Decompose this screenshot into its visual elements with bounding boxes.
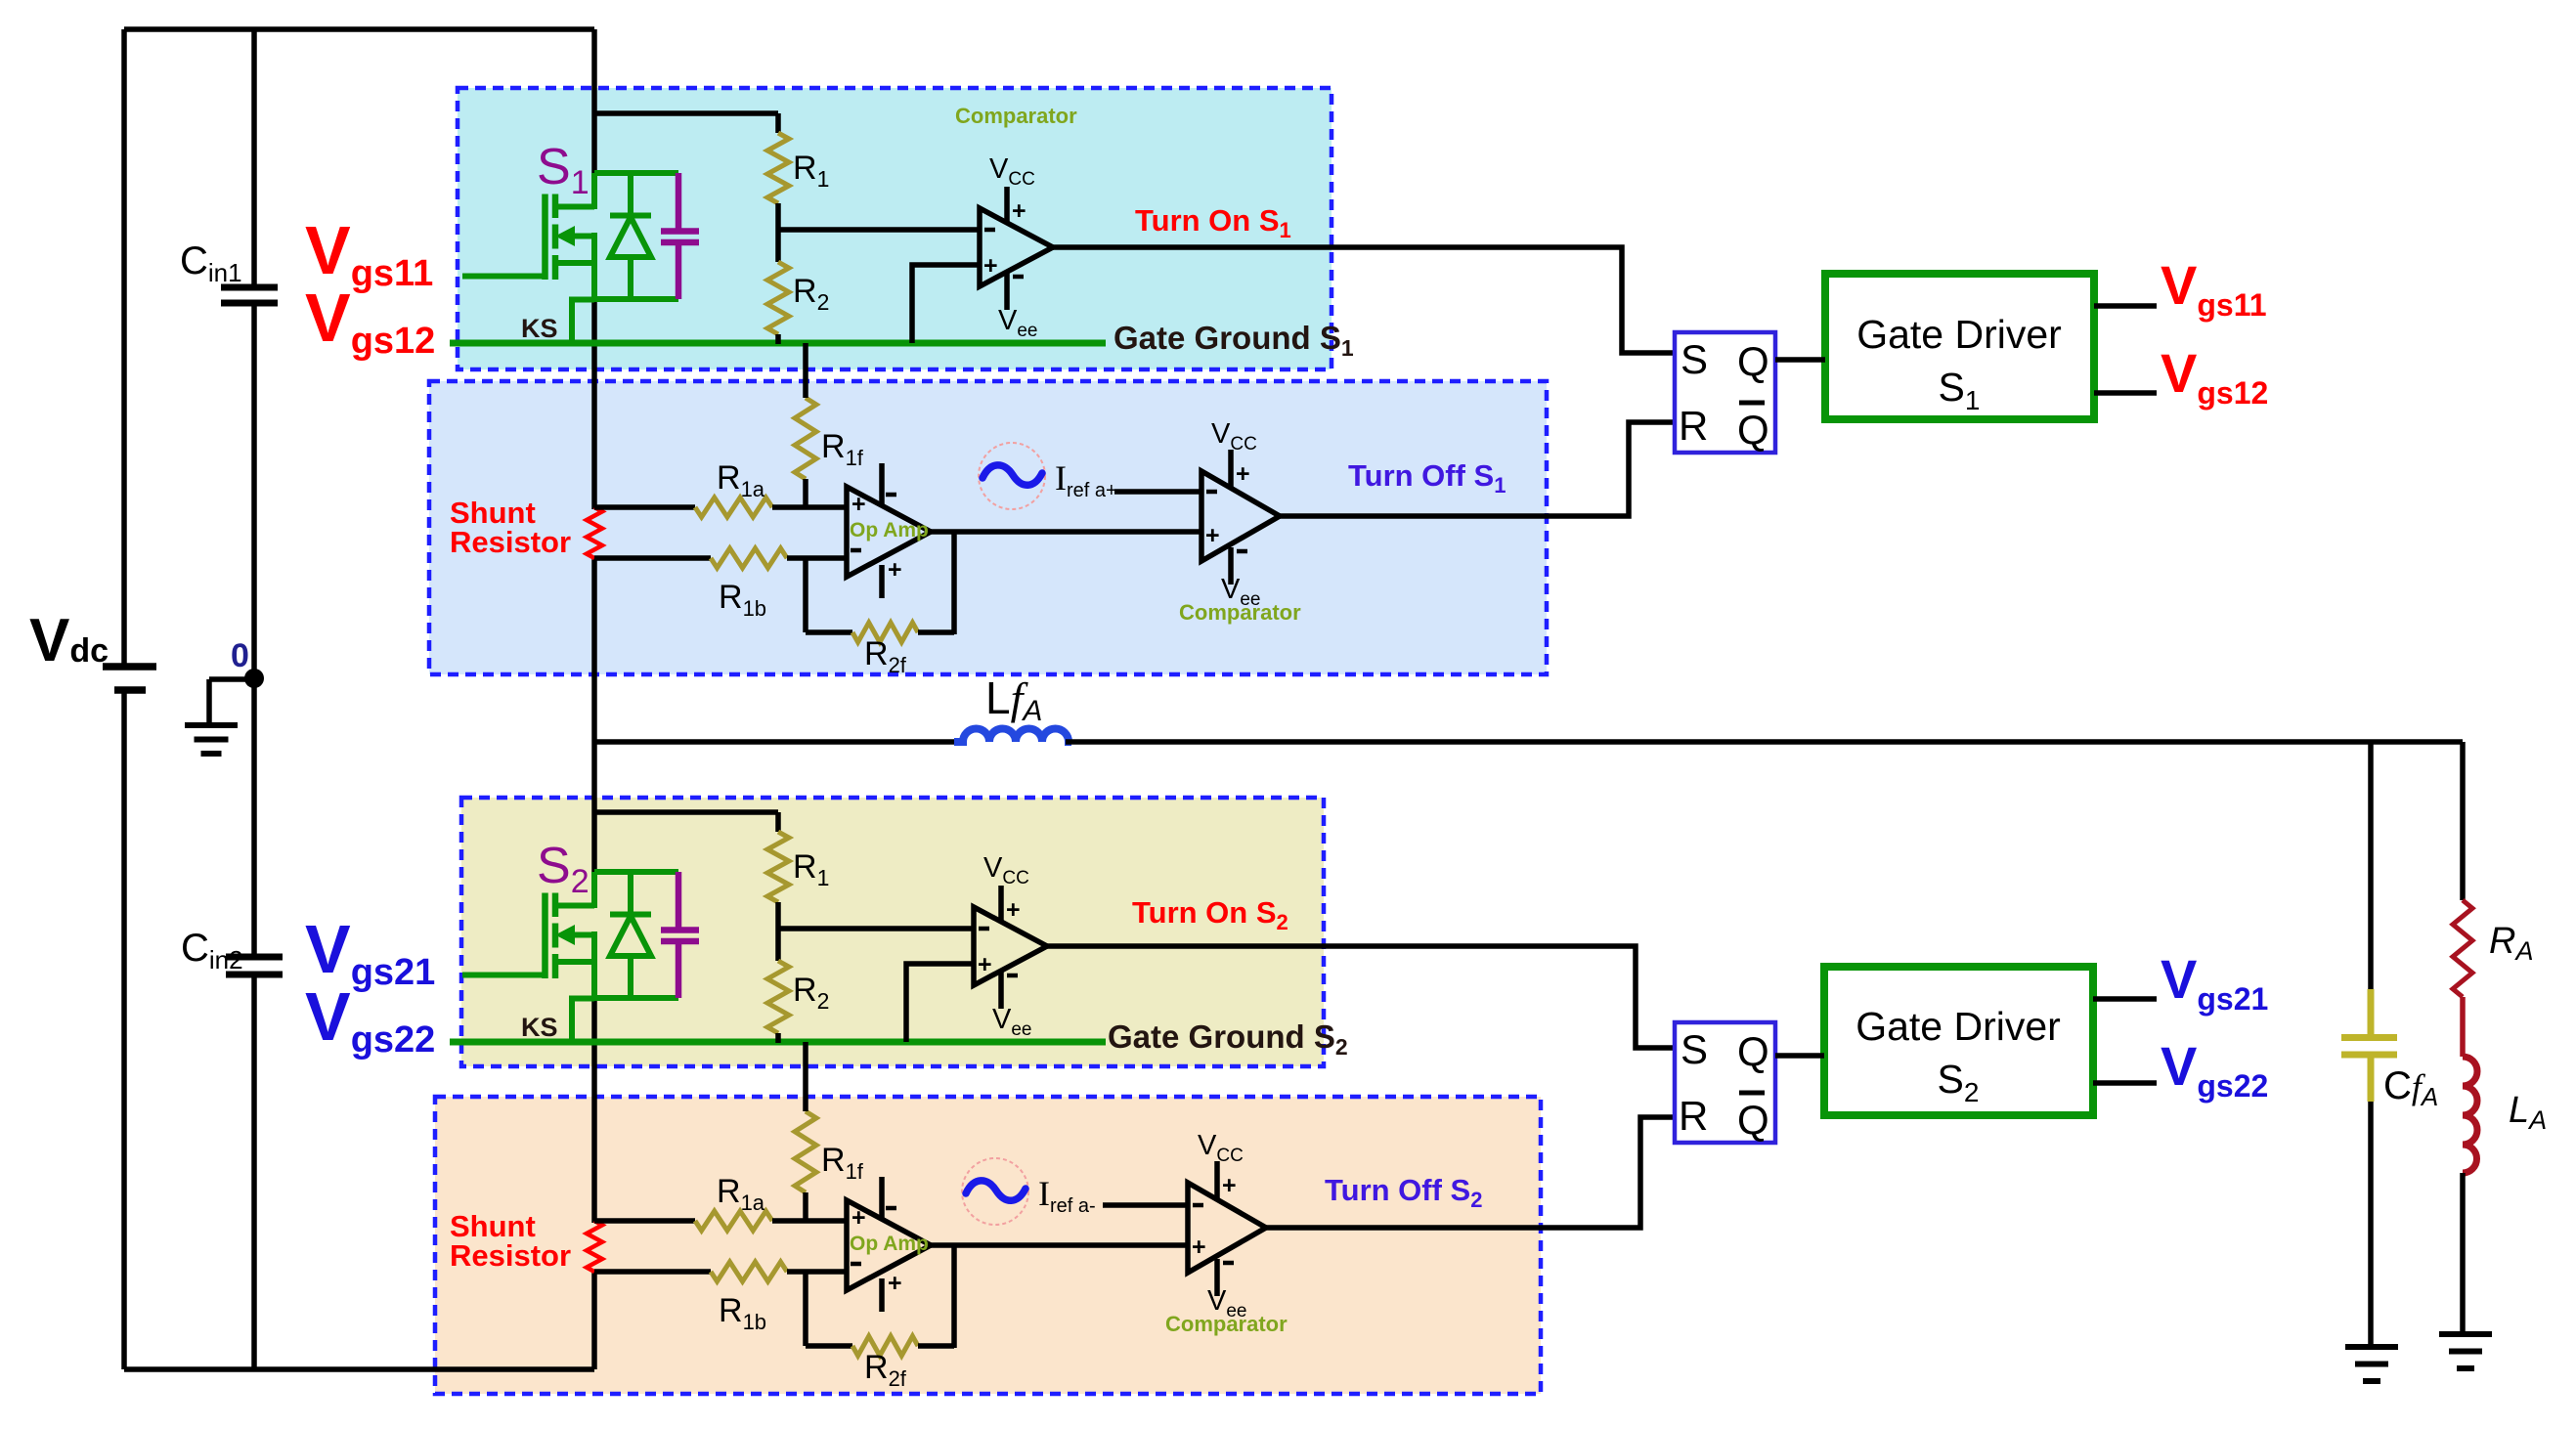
svg-text:Comparator: Comparator [955,104,1077,128]
svg-text:Comparator: Comparator [1179,600,1301,625]
wire RA to LA (dark red) [2460,997,2466,1057]
node 0 junction dot [244,669,264,688]
wire op-amp output down branch S1 [951,532,957,634]
wire comparator plus input to bus S1 [912,265,980,343]
gate driver S1 box [1825,274,2094,419]
svg-text:+: + [851,491,866,518]
svg-text:Gate Driver: Gate Driver [1856,1004,2061,1049]
shunt resistor (red) S1 [587,507,602,558]
wire R2 to gate-ground bus S1 [775,334,781,344]
svg-text:+: + [888,556,902,584]
svg-text:Turn Off S2: Turn Off S2 [1325,1173,1482,1212]
wire gate driver S2 output Vgs22 [2093,1080,2157,1086]
svg-text:Op Amp: Op Amp [850,1233,929,1255]
wire drain-diode-cap top link S1 [594,170,678,176]
transistor S2 gate plate [542,893,548,979]
body diode D2 [628,872,633,915]
resistor R2f S1 [852,623,918,642]
svg-text:Cin2: Cin2 [181,927,243,974]
svg-text:+: + [1222,1172,1237,1199]
region box: S1 turn-on comparator section (cyan, dashed blue) [458,88,1332,369]
capacitor Cin1 [221,284,278,291]
wire shunt bottom to R1b S2 [594,1269,711,1275]
svg-text:Vgs21: Vgs21 [2161,948,2268,1017]
wire phase node to LfA [594,739,958,745]
wire R1b to op-amp minus S2 [787,1269,847,1275]
svg-text:LA: LA [2509,1090,2547,1135]
svg-text:+: + [1236,460,1250,488]
output capacitor of S2 (purple) [676,872,682,930]
svg-text:+: + [983,252,998,280]
gate driver S2 box [1824,967,2093,1115]
wire op-amp output down branch S2 [951,1245,957,1348]
transistor S2 source lead [555,959,594,965]
transistor S1 source lead [555,260,594,266]
wire latch1 Q to gate driver S1 [1775,357,1825,363]
wire R1-R2 tap S1 [775,203,781,262]
resistor R2f S2 [852,1336,918,1356]
resistor R1a S2 [695,1211,772,1231]
svg-text:Turn Off S1: Turn Off S1 [1348,458,1506,498]
svg-text:0: 0 [231,637,249,674]
comparator (turn-off) S2 [1188,1183,1266,1273]
svg-text:+: + [851,1204,866,1232]
resistor R1 (divider) S1 [767,133,789,203]
wire shunt bottom to R1b S1 [594,555,711,561]
resistor R2 (divider) S1 [767,262,789,334]
wire middle rail top (to Cin1) [251,29,257,287]
svg-text:Vgs22: Vgs22 [2161,1035,2268,1104]
wire gate driver S2 output Vgs21 [2093,996,2157,1002]
wire middle rail mid (Cin1 to node 0 to Cin2) [251,303,257,957]
sine reference source Iref a- (S2) [962,1158,1028,1225]
svg-text:Resistor: Resistor [450,525,571,559]
comparator (turn-on) S1 [980,208,1053,286]
svg-text:+: + [1192,1234,1206,1261]
wire main vertical: S2 source node to shunt resistor S2 [591,996,597,1223]
comparator (turn-on) S2 [974,907,1047,985]
gate lead wire (Vgs11) S1 [462,274,546,280]
wire op-amp output to turn-off comparator S1 [931,529,1201,535]
SR latch 2 box [1675,1022,1775,1143]
op-amp U2 [847,1200,931,1290]
svg-text:S: S [1681,336,1708,382]
wire shunt top to R1a S2 [594,1218,695,1224]
transistor S2 body arrow [571,932,594,938]
wire R1f to plus-input junction S1 [803,479,808,509]
wire R1f top lead to bus S2 [803,1042,808,1111]
wire op-amp minus feedback junction S2 [803,1272,808,1346]
wire turn-on S1 to latch S input [1053,247,1675,353]
svg-text:S: S [1681,1026,1708,1072]
gate lead wire (Vgs21) S2 [462,973,546,978]
wire latch2 Q to gate driver S2 [1775,1053,1824,1059]
wire drain-diode-cap top link S2 [594,869,678,875]
transistor S2 drain lead [555,903,594,909]
sine reference source Iref a+ (S1) [979,443,1045,509]
svg-text:Cin1: Cin1 [180,239,242,287]
svg-text:Turn On S1: Turn On S1 [1135,203,1291,242]
wire Iref a+ to comparator minus S1 [1114,489,1201,495]
wire R1f top lead to bus S1 [803,343,808,398]
svg-text:RA: RA [2489,921,2533,966]
svg-text:R: R [1679,403,1708,449]
op-amp U1 [847,487,931,577]
wire op-amp output to turn-off comparator S2 [931,1242,1188,1248]
body diode D1 [628,173,633,216]
ground symbol under CfA [2345,1344,2398,1350]
region box: S1 shunt/op-amp turn-off section (light blue, dashed blue) [429,381,1547,674]
svg-text:Vgs12: Vgs12 [2161,342,2268,411]
svg-text:Comparator: Comparator [1165,1312,1288,1336]
comparator (turn-off) S1 [1201,471,1280,561]
wire Iref a- to comparator minus S2 [1103,1202,1188,1208]
wire R2f to output branch S2 [918,1343,954,1349]
resistor R1f S2 [795,1111,816,1192]
kelvin source stub KS S1 [572,300,594,344]
region box: S2 shunt/op-amp turn-off section (orange, dashed blue) [435,1097,1541,1394]
wire gate driver S1 output Vgs11 [2094,303,2157,309]
wire feedback to R2f S1 [806,629,852,635]
svg-text:+: + [1006,896,1021,924]
resistor R1f S1 [795,398,816,479]
wire R1a to op-amp plus S2 [772,1218,847,1224]
ground symbol under LA [2439,1331,2492,1337]
svg-text:Q: Q [1737,1028,1769,1074]
svg-text:Vdc: Vdc [29,607,109,674]
wire main vertical: S1 source node to shunt resistor S1 [591,297,597,509]
wire left rail upper (Vdc+) [121,29,127,667]
svg-text:Gate Ground S1: Gate Ground S1 [1113,320,1354,361]
svg-text:Q: Q [1737,407,1769,453]
wire middle rail bottom (Cin2 to bottom bus) [251,974,257,1369]
wire source-diode-cap bottom link S1 [594,296,678,302]
region box: S2 turn-on comparator section (olive, dashed blue) [461,798,1324,1066]
svg-text:R: R [1679,1093,1708,1139]
output capacitor of S1 (purple) [676,173,682,231]
svg-text:+: + [1205,522,1220,549]
svg-text:+: + [1012,197,1026,225]
resistor R1b S2 [711,1262,787,1281]
svg-text:Resistor: Resistor [450,1238,571,1273]
wire R1b to op-amp minus S1 [787,555,847,561]
SR latch 1 box [1675,332,1775,453]
transistor S1 channel segments [552,195,559,219]
wire shunt top to R1a S1 [594,504,695,510]
resistor R1b S1 [711,548,787,568]
wire bottom bus [124,1366,594,1372]
svg-text:+: + [978,951,992,978]
svg-text:Gate Driver: Gate Driver [1856,312,2062,357]
wire R2 to gate-ground bus S2 [775,1033,781,1043]
kelvin source stub KS S2 [572,999,594,1043]
transistor S1 gate plate [542,195,548,281]
capacitor CfA (khaki) [2368,989,2375,1036]
wire R1f to plus-input junction S2 [803,1192,808,1223]
transistor S1 body arrow [571,234,594,239]
wire LfA to output branch (RA / CfA) [1066,739,2463,745]
svg-text:Vgs11: Vgs11 [2161,254,2267,323]
svg-text:Q: Q [1737,1097,1769,1143]
transistor S1 drain lead [555,204,594,210]
wire left rail lower (Vdc-) [121,690,127,1369]
wire op-amp minus feedback junction S1 [803,558,808,632]
resistor R1a S1 [695,498,772,517]
resistor R1 (divider) S2 [767,832,789,902]
gate ground bus (Vgs12) S1 [450,340,1106,347]
svg-text:KS: KS [521,1013,558,1042]
wire R1a to op-amp plus S1 [772,504,847,510]
svg-text:KS: KS [521,314,558,343]
wire comparator plus input to bus S2 [906,964,974,1042]
svg-text:+: + [888,1270,902,1297]
wire feedback to R2f S2 [806,1343,852,1349]
wire drain sense branch S2 [594,809,778,815]
wire R1-R2 tap S2 [775,902,781,961]
capacitor Cin2 [226,954,283,961]
wire drain sense branch S1 [594,110,778,116]
svg-text:Q: Q [1737,338,1769,384]
voltage source Vdc [103,663,156,671]
wire LA branch lower [2460,1173,2466,1333]
inductor LfA (blue) [954,729,1071,743]
wire source-diode-cap bottom link S2 [594,995,678,1001]
svg-text:LfA: LfA [985,672,1042,727]
wire R2f to output branch S1 [918,629,954,635]
wire turn-off S2 to latch R input [1266,1117,1675,1228]
wire turn-on S2 to latch S input [1047,946,1675,1048]
wire main vertical: top bus to S1 drain [591,29,597,175]
resistor R2 (divider) S2 [767,961,789,1033]
resistor RA (dark red) [2453,900,2472,997]
wire main vertical: shunt S1 to LfA junction to S2 drain [591,556,597,874]
wire CfA branch lower [2368,1102,2374,1346]
wire gate driver S1 output Vgs12 [2094,390,2157,396]
gate ground bus (Vgs22) S2 [450,1039,1106,1046]
svg-text:Op Amp: Op Amp [850,519,929,541]
ground symbol at node 0 [209,676,254,682]
transistor S2 channel segments [552,893,559,918]
svg-text:CfA: CfA [2383,1064,2438,1111]
wire CfA branch upper [2368,742,2374,989]
svg-text:Turn On S2: Turn On S2 [1132,895,1288,934]
wire top bus [124,26,594,32]
svg-text:Gate Ground S2: Gate Ground S2 [1108,1018,1348,1060]
wire main vertical: shunt S2 to bottom bus [591,1270,597,1369]
wire RA branch upper [2460,742,2466,900]
inductor LA (dark red) [2463,1057,2477,1173]
shunt resistor (red) S2 [587,1221,602,1272]
wire turn-off S1 to latch R input [1280,422,1675,516]
